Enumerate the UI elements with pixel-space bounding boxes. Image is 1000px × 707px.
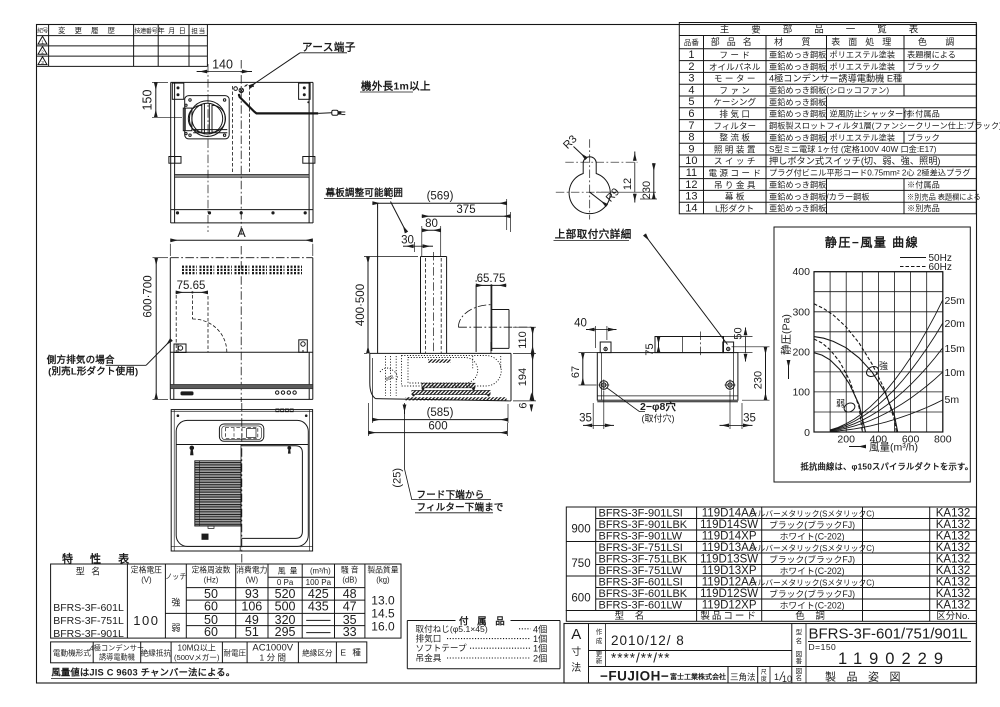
svg-text:幕板調整可能範囲: 幕板調整可能範囲 [325,187,404,199]
svg-text:KA132: KA132 [936,565,971,577]
svg-text:耐電圧: 耐電圧 [223,648,246,658]
svg-text:435: 435 [308,600,329,614]
svg-text:5m: 5m [945,394,960,406]
svg-text:※付属品: ※付属品 [907,180,940,190]
svg-text:BFRS-3F-901L: BFRS-3F-901L [53,628,124,640]
dimension 6 [530,395,532,401]
svg-text:100 Pa: 100 Pa [306,578,332,587]
accessories box 付属品 [407,620,455,622]
svg-text:品番: 品番 [684,37,699,47]
svg-text:消費電力: 消費電力 [236,565,267,575]
svg-text:※付属品: ※付属品 [907,109,940,119]
svg-text:ソフトテープ: ソフトテープ [416,643,467,653]
svg-text:50: 50 [733,327,745,339]
svg-text:側方排気の場合: 側方排気の場合 [46,354,115,366]
svg-text:KA132: KA132 [936,588,971,600]
svg-text:幕 板: 幕 板 [725,191,745,202]
svg-text:ブラック: ブラック [907,62,940,72]
svg-text:名: 名 [796,673,803,682]
svg-text:119D12SW: 119D12SW [700,588,758,600]
mounting view: dim 35 right [729,391,731,429]
svg-text:A: A [237,226,246,240]
svg-text:ノッチ: ノッチ [165,572,186,581]
svg-text:100: 100 [792,386,810,398]
svg-text:194: 194 [517,368,529,386]
front view: upper chimney section outline [171,81,313,83]
svg-text:色 調: 色 調 [918,36,963,47]
svg-text:119D13AA: 119D13AA [702,542,757,554]
svg-text:成: 成 [596,636,603,645]
svg-text:(500Vメガー): (500Vメガー) [174,652,220,662]
svg-text:4: 4 [688,84,694,96]
side view: small interior marks [422,387,425,390]
svg-text:BFRS-3F-751LW: BFRS-3F-751LW [599,565,683,577]
svg-text:75: 75 [644,343,656,355]
svg-text:1: 1 [688,49,694,61]
hood lower panel [170,351,312,353]
bottom view: switch slots [276,409,279,412]
svg-text:2個: 2個 [533,653,547,664]
svg-text:0 Pa: 0 Pa [277,578,294,587]
svg-text:製品質量: 製品質量 [367,565,398,575]
svg-text:弱: 弱 [171,623,180,633]
power plug [332,110,338,115]
dimension (25) leader [404,403,406,469]
svg-text:10MΩ以上: 10MΩ以上 [178,644,216,653]
svg-text:照 明 装 置: 照 明 装 置 [714,143,756,154]
bottom view: center line [241,403,243,563]
svg-text:BFRS-3F-901LBK: BFRS-3F-901LBK [599,519,688,531]
power cord [239,95,318,113]
svg-text:排気口: 排気口 [416,633,442,644]
graph: fan curves 強 [814,337,898,432]
title block: date rows [589,650,792,652]
svg-text:4極コンデンサー誘導電動機 E種: 4極コンデンサー誘導電動機 E種 [769,72,902,83]
svg-text:ケーシング: ケーシング [713,96,756,107]
svg-text:BFRS-3F-601LBK: BFRS-3F-601LBK [599,588,688,600]
mounting view: dim 40 [595,326,597,348]
svg-text:20m: 20m [945,318,966,330]
svg-text:BFRS-3F-751LSI: BFRS-3F-751LSI [599,542,683,554]
svg-text:フィルター下端まで: フィルター下端まで [417,502,504,514]
svg-text:5: 5 [688,96,694,108]
svg-text:区分No.: 区分No. [936,611,970,622]
svg-text:材 質: 材 質 [774,36,819,47]
svg-text:140: 140 [212,58,233,72]
svg-text:2−φ8穴: 2−φ8穴 [640,400,676,413]
svg-text:6: 6 [518,402,530,408]
svg-text:番: 番 [796,657,803,665]
svg-text:部品名: 部品名 [711,36,759,47]
svg-text:亜鉛めっき鋼板(シロッコファン): 亜鉛めっき鋼板(シロッコファン) [769,85,889,95]
side view: hood body profile [370,352,511,354]
dimension 375 [510,212,512,232]
svg-text:KA132: KA132 [936,554,971,566]
title block [564,624,976,684]
right hanging bracket [299,340,308,353]
parts list table (主要部品一覧表) [679,23,976,214]
svg-text:3: 3 [688,73,694,85]
svg-text:800: 800 [934,434,952,446]
svg-text:ホワイト(C-202): ホワイト(C-202) [780,566,845,576]
bottom view: filter with stripes [195,461,241,526]
graph: outer box [774,227,970,482]
svg-text:亜鉛めっき鋼板: 亜鉛めっき鋼板 [769,97,826,107]
svg-text:亜鉛めっき鋼板: 亜鉛めっき鋼板 [769,180,826,190]
svg-text:電 源 コ ー ド: 電 源 コ ー ド [708,168,761,178]
svg-text:600: 600 [428,420,447,432]
svg-text:尺: 尺 [761,669,767,676]
mounting view: plate outline [597,353,738,401]
revision history table [37,35,208,37]
svg-text:KA132: KA132 [936,577,971,589]
front view: gray band (mounting rail) [175,174,310,177]
svg-text:1190229: 1190229 [838,650,950,668]
svg-text:ブラック(ブラックFJ): ブラック(ブラックFJ) [769,554,855,565]
svg-text:BFRS-3F-601LSI: BFRS-3F-601LSI [599,577,683,589]
svg-text:オイルパネル: オイルパネル [709,62,761,72]
svg-text:900: 900 [571,524,590,536]
side view: duct center arc (chain) [458,305,491,328]
svg-text:400: 400 [792,266,810,278]
svg-text:33: 33 [343,625,357,639]
dimension 30 [414,242,416,252]
svg-text:L形ダクト: L形ダクト [715,202,754,213]
svg-text:寸: 寸 [571,645,581,658]
leader from makuita label [391,202,407,233]
svg-text:300: 300 [792,306,810,318]
svg-text:47: 47 [343,600,357,614]
svg-text:モ ー タ ー: モ ー タ ー [714,74,756,84]
svg-text:KA132: KA132 [936,542,971,554]
svg-text:電動機形式: 電動機形式 [53,648,91,658]
svg-text:500: 500 [275,600,296,614]
dimension 400-500 [364,256,418,258]
svg-text:13.0: 13.0 [371,594,395,608]
svg-text:亜鉛めっき鋼板/カラー鋼板: 亜鉛めっき鋼板/カラー鋼板 [769,191,870,201]
svg-text:BFRS-3F-601L: BFRS-3F-601L [53,602,124,614]
svg-text:12: 12 [622,178,634,190]
front view: duct plate and collar circle [185,96,230,139]
svg-text:静圧(Pa): 静圧(Pa) [780,314,793,355]
mounting view: top bracket squares [600,342,611,353]
svg-text:4個: 4個 [533,623,547,634]
svg-text:9: 9 [688,143,694,155]
graph: legend [900,257,926,259]
svg-text:ブラック(ブラックFJ): ブラック(ブラックFJ) [769,519,855,530]
svg-text:80: 80 [425,218,438,230]
mounting view: dim 67 [582,353,584,385]
svg-text:2010/12/ 8: 2010/12/ 8 [611,633,685,648]
svg-text:強: 強 [879,360,888,371]
svg-text:8: 8 [688,132,694,144]
svg-text:シルバーメタリック(SメタリックC): シルバーメタリック(SメタリックC) [750,544,875,553]
svg-text:※別売品: ※別売品 [907,203,940,213]
svg-text:新: 新 [596,656,603,665]
svg-text:(取付穴): (取付穴) [642,413,675,424]
svg-text:A: A [571,626,581,643]
side view: wall/back vertical line [377,204,379,354]
svg-text:1 分 間: 1 分 間 [260,653,286,663]
svg-text:25m: 25m [945,295,966,307]
svg-text:風量(m³/h): 風量(m³/h) [869,442,918,454]
front view: center line [240,60,242,237]
svg-text:亜鉛めっき鋼板: 亜鉛めっき鋼板 [769,109,826,119]
svg-text:図: 図 [796,667,803,675]
svg-text:ス イ ッ チ: ス イ ッ チ [714,156,756,166]
svg-text:(m³/h): (m³/h) [310,567,331,576]
svg-text:BFRS-3F-901LW: BFRS-3F-901LW [599,531,683,543]
svg-text:紀号: 紀号 [37,27,48,35]
svg-text:(kg): (kg) [376,576,390,585]
svg-text:600·700: 600·700 [143,275,155,317]
svg-text:ブラック: ブラック [907,132,940,142]
svg-text:抵抗曲線は、φ150スパイラルダクトを示す。: 抵抗曲線は、φ150スパイラルダクトを示す。 [801,462,974,472]
svg-text:度: 度 [761,675,767,683]
svg-text:表面処理: 表面処理 [831,36,899,47]
mounting view: phi8 holes [600,381,609,390]
side view: shutter zigzag [428,359,451,363]
svg-text:製品姿図: 製品姿図 [825,670,911,684]
svg-text:(25): (25) [392,468,404,488]
svg-text:106: 106 [241,600,262,614]
svg-text:375: 375 [456,204,475,216]
svg-text:ホワイト(C-202): ホワイト(C-202) [780,601,845,611]
svg-text:35: 35 [743,413,756,425]
svg-text:年月日: 年月日 [158,26,190,35]
svg-text:6: 6 [688,108,694,120]
svg-text:40: 40 [574,318,587,330]
svg-text:押しボタン式スイッチ(切、弱、強、照明): 押しボタン式スイッチ(切、弱、強、照明) [769,155,941,166]
svg-text:シルバーメタリック(SメタリックC): シルバーメタリック(SメタリックC) [750,510,875,519]
svg-text:60: 60 [204,600,218,614]
label: 2-φ8穴(取付穴) [607,388,646,412]
mounting view: dim 50 [745,328,747,336]
svg-text:更: 更 [596,650,603,658]
svg-text:11: 11 [686,167,697,179]
svg-text:13: 13 [685,191,697,203]
front view: hood body top chain line [170,257,312,259]
svg-text:逆風防止シャッター付: 逆風防止シャッター付 [830,109,912,119]
dark band on hood bottom [170,384,312,388]
svg-text:シルバーメタリック(SメタリックC): シルバーメタリック(SメタリックC) [750,579,875,588]
svg-text:30: 30 [401,235,414,247]
graph: resistance curves [830,300,943,430]
svg-text:119D13XP: 119D13XP [702,565,757,577]
svg-text:60: 60 [204,625,218,639]
svg-text:上部取付穴詳細: 上部取付穴詳細 [555,228,632,241]
front view: hidden duct lines [232,86,234,174]
mounting view: chimney top tab [655,337,724,353]
svg-text:弱: 弱 [836,399,845,409]
svg-text:51: 51 [245,625,259,639]
svg-text:400·500: 400·500 [355,284,367,326]
svg-text:16.0: 16.0 [371,620,395,634]
hidden L-duct lines (side exhaust) [175,295,177,352]
svg-text:1: 1 [774,672,779,682]
dimension A [169,244,171,256]
front view: bottom plate of chimney [171,209,313,211]
svg-text:亜鉛めっき鋼板: 亜鉛めっき鋼板 [769,203,826,213]
svg-text:(585): (585) [427,407,454,419]
svg-text:295: 295 [275,625,296,639]
dimension 600-700 [153,257,169,259]
svg-text:119D14SW: 119D14SW [700,519,758,531]
bottom view: inner rounded panel [176,420,308,546]
svg-text:強: 強 [171,597,180,608]
side view: filter hatch bands [422,383,476,388]
svg-text:KA132: KA132 [936,600,971,612]
mounting view: dim 230 [765,347,767,400]
svg-text:BFRS-3F-901LSI: BFRS-3F-901LSI [599,508,683,520]
svg-text:排 気 口: 排 気 口 [719,108,750,119]
svg-text:フィルター: フィルター [713,121,756,131]
product table footer row [566,611,976,622]
svg-text:4極コンデンサー: 4極コンデンサー [90,644,144,653]
svg-text:亜鉛めっき鋼板: 亜鉛めっき鋼板 [769,50,826,60]
svg-text:型: 型 [796,627,803,636]
svg-text:ホワイト(C-202): ホワイト(C-202) [780,532,845,542]
svg-text:E 種: E 種 [340,648,363,658]
svg-text:型 名: 型 名 [615,610,649,622]
title block: name/number col [791,624,793,684]
side view: interior dashed casing [402,356,502,387]
svg-text:****/**/**: ****/**/** [611,651,671,666]
front view: hood body sides [169,258,171,400]
svg-text:(V): (V) [141,576,152,585]
product code table [566,507,976,611]
svg-text:14: 14 [685,202,697,214]
mounting view: dim 75 [658,337,660,353]
svg-text:12: 12 [685,179,697,191]
bottom view: lamp opening [219,424,263,441]
svg-text:絶縁抵抗: 絶縁抵抗 [141,648,172,658]
svg-text:機外長1m以上: 機外長1m以上 [361,80,431,93]
left hanging bracket [174,344,186,353]
hole detail: keyhole shape [569,157,610,214]
svg-text:(dB): (dB) [342,576,357,585]
bottom view: filter handle block [202,534,209,540]
characteristics table grid [51,564,401,638]
svg-text:119D14XP: 119D14XP [702,531,757,543]
svg-text:119D12XP: 119D12XP [702,600,757,612]
svg-text:15m: 15m [945,343,966,355]
svg-text:KA132: KA132 [936,508,971,520]
svg-text:2: 2 [688,61,694,73]
svg-text:作: 作 [596,627,603,636]
svg-text:200: 200 [837,434,855,446]
svg-text:(W): (W) [246,576,259,585]
svg-text:S型ミニ電球 1ヶ付 (定格100V 40W 口金:E17): S型ミニ電球 1ヶ付 (定格100V 40W 口金:E17) [769,144,937,154]
svg-text:亜鉛めっき鋼板: 亜鉛めっき鋼板 [769,132,826,142]
svg-text:65.75: 65.75 [477,273,506,285]
leader to mounting bracket hole [645,235,728,345]
svg-text:製品コード: 製品コード [700,610,758,622]
svg-text:150: 150 [141,90,155,111]
motor spec table [51,642,367,663]
svg-text:119D14AA: 119D14AA [702,508,757,520]
bottom view: oil panel outline [242,446,303,539]
svg-text:75.65: 75.65 [177,280,206,292]
svg-text:BFRS-3F-601LW: BFRS-3F-601LW [599,600,683,612]
svg-text:風量値はJIS C 9603 チャンバー法による。: 風量値はJIS C 9603 チャンバー法による。 [51,667,235,678]
svg-text:フ ー ド: フ ー ド [719,50,750,60]
graph: fan curves 弱 [814,353,866,432]
svg-text:1個: 1個 [533,643,547,654]
svg-text:119D13SW: 119D13SW [700,554,758,566]
svg-text:型 名: 型 名 [76,566,103,577]
svg-text:600: 600 [571,593,590,605]
svg-text:プラグ付ビニル平形コード0.75mm² 2心 2極差込プラグ: プラグ付ビニル平形コード0.75mm² 2心 2極差込プラグ [769,168,971,178]
svg-text:絶縁区分: 絶縁区分 [302,648,333,658]
svg-text:アース端子: アース端子 [302,41,356,54]
dimension 75.65 [176,291,208,293]
hole detail: dimension 12 [634,152,636,161]
svg-text:名: 名 [796,636,803,645]
svg-text:吊 り 金 具: 吊 り 金 具 [714,179,756,190]
svg-text:ポリエステル塗装: ポリエステル塗装 [830,132,896,142]
earth terminal [234,87,238,91]
mounting view: dim 35 left [592,403,594,429]
svg-text:※別売品 表題欄による: ※別売品 表題欄による [907,192,981,201]
dimension 140 [207,64,209,232]
svg-text:色 調: 色 調 [795,610,829,622]
svg-text:750: 750 [571,558,590,570]
svg-text:表題欄による: 表題欄による [907,50,956,60]
dimension (569) [377,203,379,208]
graph: grid [813,272,815,432]
svg-text:0: 0 [804,427,810,439]
side view: exhaust outlet channel [475,285,477,352]
dimension 150 [152,81,168,83]
front view: hood body centerline [240,246,242,402]
svg-text:誘導電動機: 誘導電動機 [99,653,135,662]
svg-text:定格電圧: 定格電圧 [131,565,162,575]
svg-text:67: 67 [570,366,582,378]
svg-text:亜鉛めっき鋼板: 亜鉛めっき鋼板 [769,62,826,72]
svg-text:変更履歴: 変更履歴 [58,25,124,35]
svg-text:鋼板製スロットフィルタ1層(ファンシークリーン仕上:ブラック: 鋼板製スロットフィルタ1層(ファンシークリーン仕上:ブラック) [769,121,1000,131]
svg-text:静圧−風量 曲線: 静圧−風量 曲線 [825,235,919,250]
svg-text:100: 100 [133,613,159,628]
bottom view: outer frame [171,410,312,551]
svg-text:法: 法 [571,661,581,674]
svg-text:富士工業株式会社: 富士工業株式会社 [670,672,726,681]
svg-text:10: 10 [685,155,697,167]
svg-text:35: 35 [579,413,592,425]
svg-text:D=150: D=150 [809,642,837,652]
svg-text:7: 7 [688,120,694,132]
side view: chimney column [421,256,447,258]
dimension (585) [371,358,373,423]
switch buttons [276,391,279,394]
front view: mid side brackets [169,157,181,164]
dimension 110 [513,326,536,328]
svg-text:特 性 表: 特 性 表 [62,552,136,566]
hole detail: dimension 230 [653,163,655,199]
svg-text:三角法: 三角法 [730,672,756,682]
dimension 65.75 [475,280,477,282]
svg-text:整 流 板: 整 流 板 [719,132,750,143]
svg-text:230: 230 [753,371,765,389]
svg-text:騒 音: 騒 音 [341,565,359,575]
bottom view: keyhole marks [190,446,195,451]
svg-text:ポリエステル塗装: ポリエステル塗装 [830,50,896,60]
svg-text:ポリエステル塗装: ポリエステル塗装 [830,62,896,72]
svg-text:10m: 10m [945,367,966,379]
svg-text:技連番号: 技連番号 [134,27,157,35]
svg-text:(Hz): (Hz) [204,576,219,585]
